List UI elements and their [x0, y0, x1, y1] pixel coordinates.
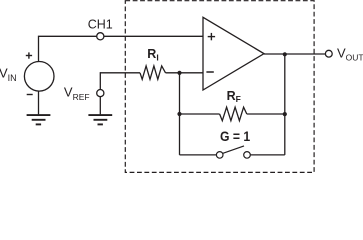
junction node at output [283, 52, 287, 56]
junction node at inverting input [177, 71, 181, 75]
wire CH1 terminal to op-amp + input [104, 35, 203, 37]
svg-text:CH1: CH1 [88, 17, 113, 31]
wire RI to op-amp inverting input [166, 72, 204, 74]
op-amp U1 [203, 17, 264, 90]
terminal VOUT [325, 50, 332, 57]
dashed device boundary box [125, 1, 314, 173]
wire VREF corner to resistor RI [100, 72, 140, 74]
svg-text:G = 1: G = 1 [220, 129, 251, 144]
plus polarity mark of VIN [26, 52, 32, 58]
wire feedback row left to RF [180, 113, 220, 115]
wire VIN top up and right to CH1 terminal [39, 36, 97, 61]
wire VREF bottom to ground [99, 97, 101, 115]
wire VIN bottom to ground [38, 91, 40, 114]
op-amp - input pin mark [206, 71, 213, 73]
wire inverting node down to feedback row and switch row [179, 73, 181, 155]
voltage source VIN [24, 62, 54, 92]
minus polarity mark of VIN [27, 94, 33, 96]
wire VREF up to inverting input row [99, 72, 101, 89]
terminal CH1 [97, 33, 104, 40]
wire RF to output branch [247, 113, 285, 115]
wire switch row right [250, 154, 284, 156]
ground symbol at VIN [27, 115, 51, 124]
junction node feedback row right [283, 112, 287, 116]
junction node feedback row left [177, 112, 181, 116]
switch G=1 blade (open) [223, 146, 244, 153]
switch G=1 left contact [216, 152, 223, 159]
terminal VREF [97, 90, 104, 97]
wire output node down to feedback row and switch row [284, 54, 286, 155]
wire switch row left [180, 154, 217, 156]
switch G=1 right contact [244, 152, 251, 159]
wire op-amp output to VOUT terminal [264, 53, 325, 55]
resistor RF [220, 107, 247, 121]
resistor RI [140, 66, 166, 79]
ground symbol at VREF [88, 115, 112, 124]
op-amp + input pin mark [208, 33, 215, 40]
